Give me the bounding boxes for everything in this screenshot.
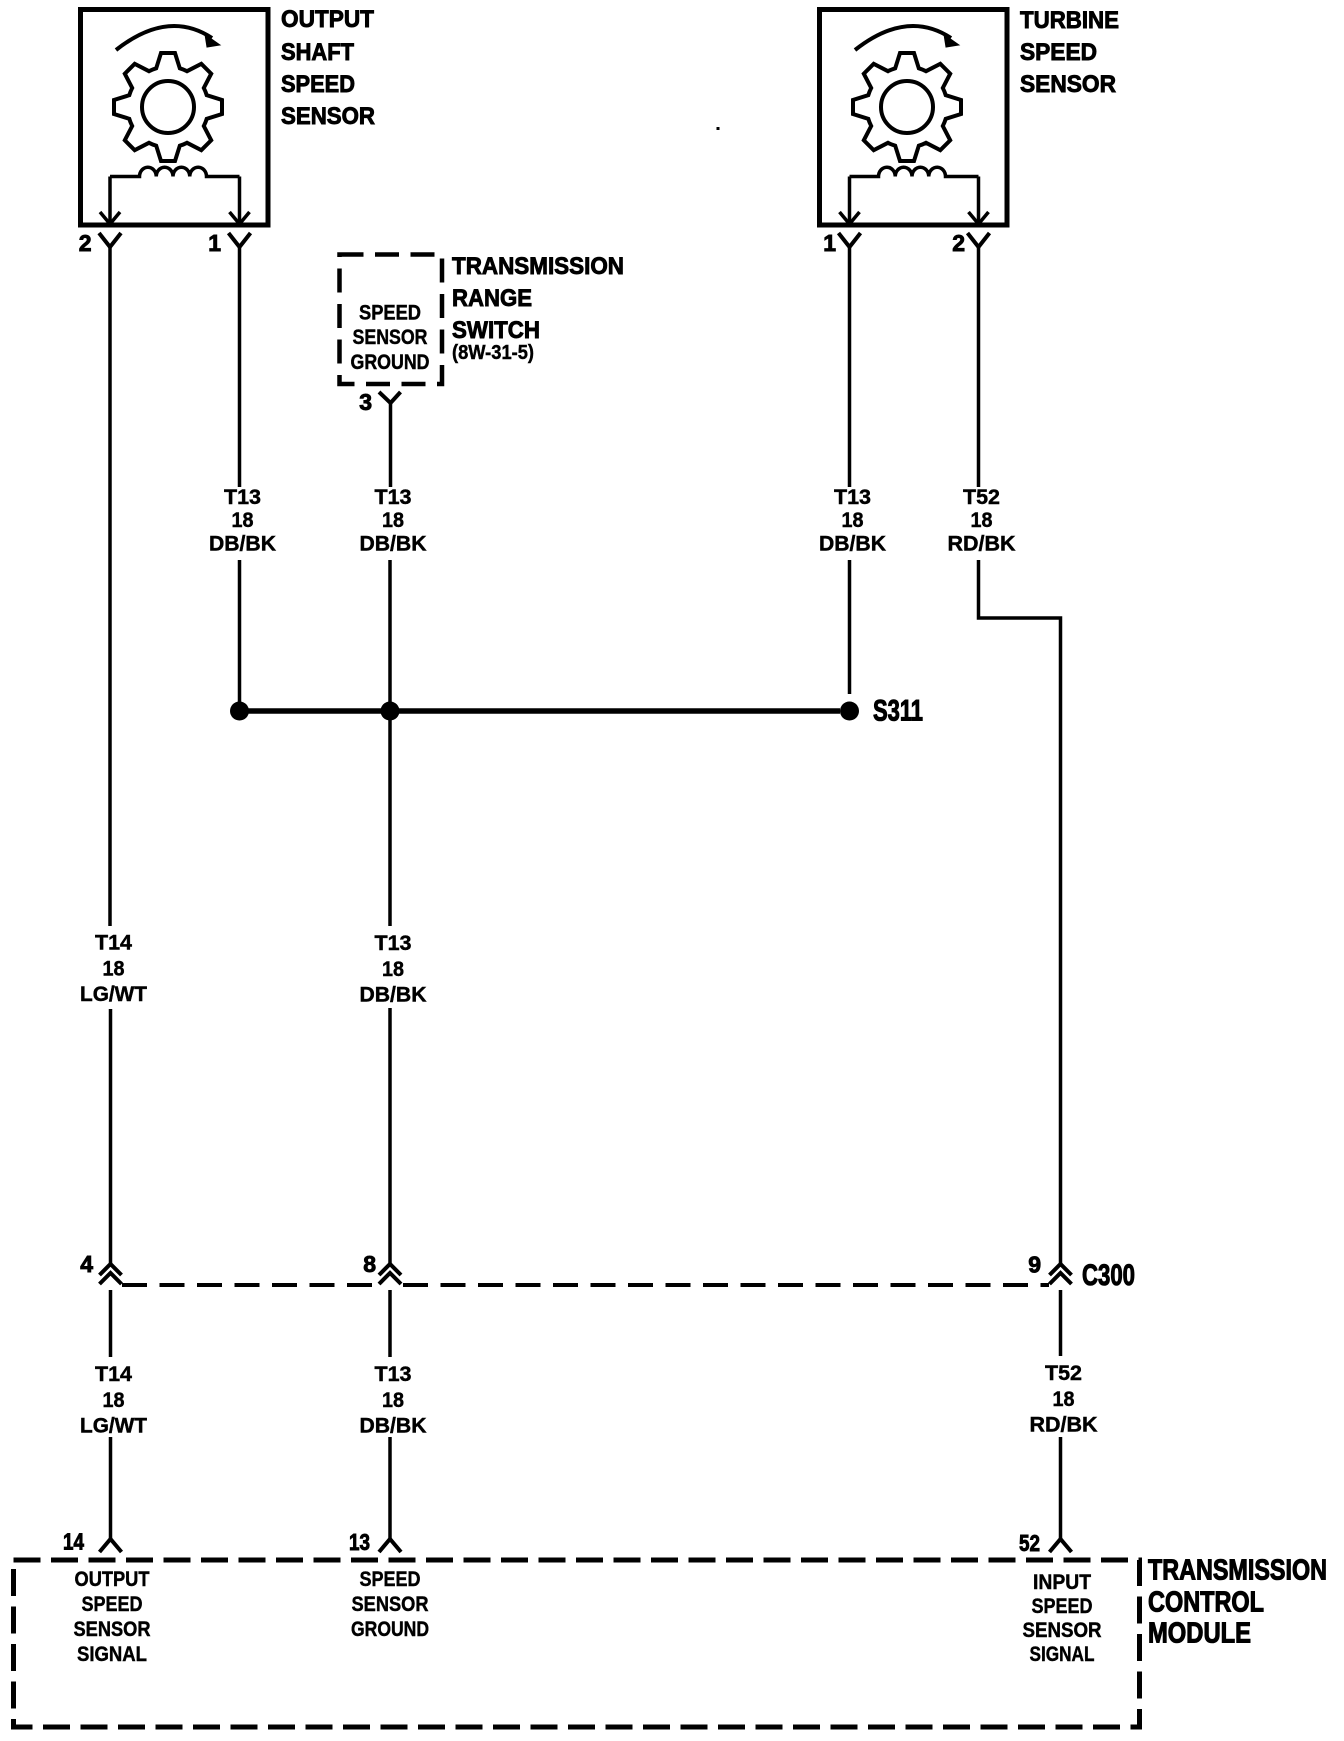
- svg-text:OUTPUT: OUTPUT: [281, 6, 374, 33]
- svg-text:18: 18: [382, 509, 404, 532]
- svg-text:18: 18: [103, 957, 125, 980]
- svg-text:T13: T13: [834, 486, 871, 509]
- svg-text:MODULE: MODULE: [1148, 1618, 1251, 1650]
- svg-text:S311: S311: [873, 695, 923, 728]
- svg-text:T52: T52: [963, 486, 1000, 509]
- svg-text:4: 4: [80, 1251, 93, 1277]
- svg-text:T13: T13: [224, 486, 261, 509]
- svg-text:2: 2: [952, 230, 965, 256]
- svg-text:SENSOR: SENSOR: [352, 1593, 429, 1616]
- svg-text:TRANSMISSION: TRANSMISSION: [452, 253, 624, 280]
- svg-text:DB/BK: DB/BK: [819, 533, 886, 556]
- svg-text:18: 18: [382, 1389, 404, 1412]
- svg-text:SENSOR: SENSOR: [1020, 71, 1116, 98]
- svg-text:SPEED: SPEED: [360, 1568, 421, 1591]
- svg-text:18: 18: [103, 1389, 125, 1412]
- svg-text:18: 18: [1053, 1388, 1075, 1411]
- svg-text:T13: T13: [375, 932, 412, 955]
- svg-text:LG/WT: LG/WT: [80, 983, 147, 1006]
- svg-text:T14: T14: [95, 932, 132, 955]
- svg-text:18: 18: [232, 509, 254, 532]
- svg-text:T13: T13: [375, 1363, 412, 1386]
- svg-text:1: 1: [823, 230, 836, 256]
- svg-text:2: 2: [79, 230, 92, 256]
- svg-text:SPEED: SPEED: [281, 71, 355, 98]
- svg-text:TRANSMISSION: TRANSMISSION: [1148, 1555, 1327, 1587]
- svg-text:SPEED: SPEED: [1032, 1595, 1093, 1618]
- svg-text:C300: C300: [1082, 1259, 1135, 1292]
- svg-text:DB/BK: DB/BK: [360, 533, 427, 556]
- svg-text:OUTPUT: OUTPUT: [75, 1568, 150, 1591]
- svg-text:13: 13: [349, 1529, 370, 1555]
- svg-text:TURBINE: TURBINE: [1020, 7, 1119, 34]
- svg-text:LG/WT: LG/WT: [80, 1415, 147, 1438]
- svg-text:RD/BK: RD/BK: [948, 533, 1016, 556]
- svg-text:SPEED: SPEED: [359, 302, 421, 325]
- svg-text:RANGE: RANGE: [452, 285, 532, 312]
- svg-text:(8W-31-5): (8W-31-5): [452, 342, 534, 364]
- svg-text:52: 52: [1019, 1530, 1040, 1556]
- svg-text:18: 18: [842, 509, 864, 532]
- svg-text:GROUND: GROUND: [351, 351, 430, 374]
- svg-text:SIGNAL: SIGNAL: [1030, 1643, 1095, 1666]
- svg-text:RD/BK: RD/BK: [1030, 1414, 1098, 1437]
- svg-text:DB/BK: DB/BK: [360, 1415, 427, 1438]
- svg-text:SENSOR: SENSOR: [281, 103, 375, 130]
- svg-text:CONTROL: CONTROL: [1148, 1587, 1264, 1619]
- svg-text:8: 8: [363, 1251, 376, 1277]
- svg-text:SPEED: SPEED: [1020, 39, 1097, 66]
- svg-text:9: 9: [1028, 1252, 1041, 1278]
- svg-text:SENSOR: SENSOR: [1023, 1619, 1102, 1642]
- svg-text:SENSOR: SENSOR: [353, 326, 428, 349]
- svg-text:SIGNAL: SIGNAL: [77, 1643, 147, 1666]
- svg-text:18: 18: [971, 509, 993, 532]
- svg-text:T13: T13: [375, 486, 412, 509]
- svg-text:GROUND: GROUND: [351, 1618, 429, 1641]
- svg-text:SENSOR: SENSOR: [74, 1618, 151, 1641]
- svg-text:18: 18: [382, 958, 404, 981]
- svg-text:14: 14: [63, 1529, 84, 1555]
- svg-text:INPUT: INPUT: [1033, 1571, 1091, 1594]
- svg-text:T14: T14: [95, 1363, 132, 1386]
- svg-text:T52: T52: [1045, 1362, 1082, 1385]
- svg-text:SWITCH: SWITCH: [452, 317, 540, 344]
- svg-text:SPEED: SPEED: [82, 1593, 143, 1616]
- svg-text:1: 1: [208, 230, 221, 256]
- svg-text:DB/BK: DB/BK: [209, 533, 276, 556]
- svg-text:DB/BK: DB/BK: [360, 984, 427, 1007]
- svg-text:SHAFT: SHAFT: [281, 39, 354, 66]
- svg-text:3: 3: [359, 389, 372, 415]
